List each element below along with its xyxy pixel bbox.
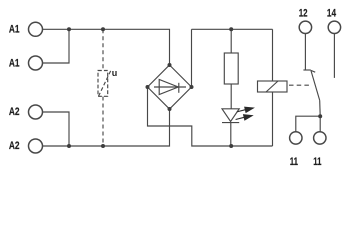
svg-text:11: 11 bbox=[290, 156, 298, 168]
svg-text:12: 12 bbox=[299, 7, 308, 19]
svg-text:u: u bbox=[112, 68, 118, 78]
svg-text:A2: A2 bbox=[9, 106, 20, 118]
svg-text:A1: A1 bbox=[9, 58, 20, 70]
svg-text:A2: A2 bbox=[9, 140, 20, 152]
svg-text:14: 14 bbox=[327, 7, 337, 19]
svg-text:11: 11 bbox=[313, 156, 321, 168]
svg-text:A1: A1 bbox=[9, 23, 20, 35]
